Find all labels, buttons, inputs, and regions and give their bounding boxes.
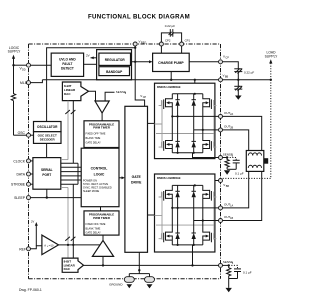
label net SENSE2	[116, 90, 127, 95]
wire VBB2 into bridge1	[195, 181, 219, 186]
svg-text:MLB: MLB	[20, 81, 28, 85]
svg-text:DAC: DAC	[64, 92, 71, 96]
wire SENSE1 net line	[84, 264, 219, 266]
wire CP2 to charge pump	[160, 46, 162, 53]
svg-text:CP: CP	[225, 57, 229, 60]
wire serial port bottom to sleep line	[46, 189, 48, 197]
label VCP at gate drive	[140, 94, 146, 99]
svg-text:FAULT: FAULT	[62, 62, 72, 66]
wire rail to bridge2 drain rail	[194, 80, 196, 94]
diode D top-left bridge2	[175, 94, 179, 117]
pin CLOCK	[13, 159, 30, 163]
svg-text:SYNC. RECT. DISABLED: SYNC. RECT. DISABLED	[83, 186, 112, 189]
ground arrow GND2	[147, 284, 153, 288]
box PROGRAMMABLE PWM TIMER 1	[84, 121, 119, 148]
svg-text:SUPPLY: SUPPLY	[265, 54, 279, 58]
svg-text:PWM TIMER: PWM TIMER	[93, 126, 111, 130]
bridge1 internals	[155, 184, 219, 265]
wire bridge2 sense	[193, 153, 219, 158]
pin SENSE2	[219, 152, 234, 159]
svg-text:SLEEP: SLEEP	[14, 196, 26, 200]
wire amp output	[59, 244, 101, 246]
pin GND2 oval	[145, 277, 155, 283]
wire control logic to gate drive arrow	[119, 176, 125, 179]
node VBB cap junction	[237, 79, 239, 81]
svg-text:DRIVE: DRIVE	[131, 181, 142, 185]
svg-text:SUPPLY: SUPPLY	[8, 50, 22, 54]
wire regulator output to charge pump	[132, 60, 153, 63]
svg-text:LOGIC: LOGIC	[94, 172, 105, 176]
wire VBB pin to load supply	[223, 79, 271, 81]
svg-text:0.22 µF: 0.22 µF	[244, 70, 254, 74]
wire OUT2A net	[172, 115, 218, 117]
transistor Q bottom-left bridge1	[159, 207, 174, 245]
diode D bottom-left bridge1	[175, 208, 179, 245]
gray gate bus bridge1	[155, 192, 215, 240]
bus serial port to DAC2 lines	[68, 163, 78, 258]
resistor sense2	[225, 158, 229, 170]
svg-text:=10: =10	[49, 243, 54, 247]
svg-text:SLEEP MODE: SLEEP MODE	[83, 190, 100, 193]
node load supply junction	[270, 79, 272, 81]
svg-text:CP1: CP1	[185, 39, 191, 43]
box regulator outer	[97, 50, 132, 80]
wire OUT2B to load	[223, 130, 249, 151]
wire CP1 to charge pump	[181, 46, 183, 53]
svg-text:CHARGE PUMP: CHARGE PUMP	[158, 61, 184, 65]
wire comp2 sense input	[102, 256, 104, 265]
svg-text:DETECT: DETECT	[61, 67, 74, 71]
wire UVLO to regulator block	[84, 63, 97, 65]
bridge2 internals	[155, 93, 219, 158]
svg-text:PWM TIMER: PWM TIMER	[93, 216, 111, 220]
svg-text:GROUND: GROUND	[109, 283, 123, 287]
DAC2 8-BIT LINEAR DAC	[62, 258, 83, 272]
wire drain rail bridge2	[172, 93, 203, 95]
pin OUT2B	[219, 125, 234, 132]
wire charge pump output to VCP pin	[189, 61, 218, 63]
pin OUT1A	[219, 203, 234, 210]
diode D bottom-right bridge2	[192, 130, 196, 153]
label 2V output arrow	[86, 54, 97, 60]
sense2 RC network	[223, 156, 244, 175]
diode D bottom-right bridge1	[192, 221, 196, 245]
wire OUT1B to load	[223, 171, 262, 220]
label LOGIC SUPPLY	[8, 46, 22, 54]
transistor Q bottom-right bridge2	[203, 130, 217, 153]
wire gate drive ground	[129, 252, 149, 276]
svg-text:UVLO AND: UVLO AND	[59, 58, 76, 62]
svg-text:1A: 1A	[230, 205, 233, 208]
box GATE DRIVE	[125, 106, 148, 252]
VBB rail	[42, 79, 218, 81]
box OSCILLATOR	[34, 122, 62, 132]
comparator COMP2	[92, 240, 113, 256]
node rail-bridge2 junction	[194, 79, 196, 81]
amp A1	[42, 235, 59, 255]
pin SENSE1	[219, 260, 234, 267]
svg-text:0.22 µF: 0.22 µF	[165, 24, 175, 28]
box SERIAL PORT	[33, 158, 61, 190]
svg-text:REG: REG	[141, 42, 146, 45]
svg-text:BB: BB	[225, 75, 229, 78]
svg-text:DAC: DAC	[64, 267, 71, 271]
node rail-chargepump junction	[170, 79, 172, 81]
svg-text:0.1 µF: 0.1 µF	[243, 271, 252, 275]
node regulator/VREG junction	[134, 61, 136, 63]
node SLEEP junction	[46, 196, 48, 198]
wire control logic to PWM2 stubs	[100, 207, 102, 211]
svg-text:POWER ON: POWER ON	[83, 179, 97, 182]
svg-text:DD: DD	[22, 69, 26, 72]
svg-text:CP: CP	[143, 96, 147, 99]
svg-text:DMOS H BRIDGE: DMOS H BRIDGE	[157, 85, 181, 89]
svg-text:GATE DELAY: GATE DELAY	[86, 231, 102, 234]
ground arrow VBB cap	[235, 96, 242, 100]
capacitor VBB bypass	[234, 80, 242, 96]
pin REF	[19, 247, 30, 252]
gray gate bus bridge2	[155, 101, 215, 149]
svg-text:REF: REF	[19, 247, 26, 251]
wire OSC to oscillator box	[31, 134, 34, 136]
svg-text:REGULATOR: REGULATOR	[105, 58, 126, 62]
wire REF to amp	[31, 246, 42, 249]
chip boundary (dash-dot outline)	[29, 44, 221, 279]
svg-text:2A: 2A	[230, 113, 233, 116]
svg-text:FUNCTIONAL BLOCK DIAGRAM: FUNCTIONAL BLOCK DIAGRAM	[88, 14, 190, 21]
box DMOS H BRIDGE 1	[155, 174, 215, 252]
svg-text:GATE: GATE	[132, 175, 142, 179]
svg-text:2V: 2V	[31, 220, 34, 224]
motor load	[246, 151, 268, 172]
pin DATA	[16, 172, 30, 176]
diode D top-right bridge2	[192, 94, 196, 130]
ground arrow sense1	[226, 288, 232, 292]
box BANDGAP	[99, 67, 130, 76]
svg-text:FIXED OFF-TIME: FIXED OFF-TIME	[86, 133, 106, 136]
bus ticks near DAC2	[65, 237, 75, 241]
wire logic supply arrow	[12, 55, 15, 66]
pin VBB2	[219, 179, 230, 189]
resistor R-osc	[11, 65, 15, 135]
wire to OSC pin	[14, 134, 29, 136]
wire PWM1 to control logic stubs	[100, 147, 102, 150]
box UVLO AND FAULT DETECT	[51, 53, 83, 76]
svg-text:BB: BB	[226, 185, 230, 188]
wire load supply dotted arrow	[269, 59, 272, 80]
wire source rail bridge2	[172, 152, 203, 154]
box PROGRAMMABLE PWM TIMER 2	[84, 211, 119, 235]
pin CP2	[159, 39, 170, 47]
box CONTROL LOGIC	[81, 148, 119, 207]
wire load supply dotted down to VBB2	[223, 80, 271, 179]
pin OUT1B	[219, 215, 234, 222]
wire OUT1A net	[172, 207, 218, 209]
wire gate drive to bridge2	[148, 122, 155, 124]
svg-text:2V: 2V	[86, 54, 90, 58]
wire SENSE2 net to comparator1	[105, 92, 114, 101]
box REGULATOR	[99, 53, 131, 65]
capacitor 0.22uF charge pump	[161, 24, 181, 42]
svg-text:CP2: CP2	[165, 39, 171, 43]
wire charge pump VBB feed	[170, 72, 172, 80]
pin CP1	[180, 39, 191, 47]
transistor Q top-right bridge2	[203, 94, 217, 130]
comparator COMP1	[95, 101, 109, 113]
wire OUT1B net	[194, 220, 219, 222]
diode D top-left bridge1	[175, 185, 179, 208]
wire DATA	[31, 173, 33, 175]
wire VDD to UVLO	[31, 64, 52, 66]
svg-text:BLANK TIME: BLANK TIME	[86, 227, 101, 230]
pin VREG	[133, 40, 146, 46]
box CHARGE PUMP	[153, 53, 190, 71]
bus DAC1 to serial port lines	[65, 101, 75, 164]
DAC1 8-BIT LINEAR DAC	[62, 82, 88, 101]
pin VBB	[219, 73, 229, 82]
wire bridge1 sense down	[192, 245, 194, 266]
wire DAC1 to comparator1	[89, 91, 96, 101]
sense1 RC network	[223, 264, 252, 292]
pin SLEEP	[14, 196, 30, 200]
diode D bottom-left bridge2	[175, 116, 179, 152]
node top bus junction	[134, 47, 136, 49]
svg-text:FIXED OFF-TIME: FIXED OFF-TIME	[86, 223, 106, 226]
wire OUT2B net	[194, 129, 219, 131]
box OSC SELECT DECODER	[34, 132, 62, 144]
svg-text:OSC: OSC	[18, 131, 26, 135]
wire 2V bus from top to oscillator	[47, 48, 136, 122]
wire to VDD pin	[14, 64, 29, 66]
svg-text:STROBE: STROBE	[11, 183, 26, 187]
wire oscillator to serial port	[46, 143, 48, 157]
pin VCP	[219, 55, 230, 64]
wire gate drive to bridge1	[148, 214, 155, 216]
svg-text:2B: 2B	[230, 127, 233, 130]
ground arrow sense2	[224, 170, 230, 174]
transistor Q top-left bridge2	[159, 94, 173, 117]
svg-text:GATE DELAY: GATE DELAY	[86, 142, 102, 145]
box DMOS H BRIDGE 2	[155, 83, 215, 158]
transistor Q bottom-left bridge2	[159, 115, 174, 153]
wire drain rail bridge1	[172, 184, 203, 186]
capacitor 0.1uF sense2	[233, 159, 240, 161]
svg-text:0.1 µF: 0.1 µF	[235, 171, 244, 175]
svg-text:CONTROL: CONTROL	[91, 167, 108, 171]
wire OUT2A to load	[223, 116, 262, 150]
pin OUT2A	[219, 111, 234, 118]
svg-text:1B: 1B	[230, 217, 233, 220]
ground arrow GND1	[127, 284, 133, 288]
svg-text:DATA: DATA	[16, 172, 25, 176]
wire source rail bridge1	[172, 244, 203, 246]
pin MLB	[20, 81, 30, 85]
transistor Q top-right bridge1	[203, 185, 217, 220]
svg-text:DMOS H BRIDGE: DMOS H BRIDGE	[157, 176, 181, 180]
svg-text:OSCILLATOR: OSCILLATOR	[37, 125, 58, 129]
wire CLOCK	[31, 160, 33, 162]
diode D top-right bridge1	[192, 185, 196, 220]
svg-text:PORT: PORT	[42, 173, 51, 177]
wire SLEEP to control logic	[31, 197, 82, 199]
transistor Q bottom-right bridge1	[203, 221, 217, 245]
wire STROBE	[31, 183, 33, 185]
wire comparator1 to PWM timer 1	[101, 113, 103, 121]
svg-text:Dwg. FP-060-1: Dwg. FP-060-1	[19, 288, 42, 292]
svg-text:CLOCK: CLOCK	[13, 159, 25, 163]
label LOAD SUPPLY	[265, 51, 279, 59]
wire OUT1A to load	[223, 171, 249, 208]
capacitor 0.1uF sense1	[234, 268, 241, 270]
resistor sense1	[227, 265, 231, 278]
svg-text:BANDGAP: BANDGAP	[106, 70, 123, 74]
pin GND1 oval	[109, 277, 134, 287]
node logic supply junction	[12, 64, 14, 66]
svg-text:A: A	[44, 243, 46, 247]
transistor Q top-left bridge1	[159, 185, 173, 208]
wire serial port buses	[61, 160, 81, 188]
wire comp2 output to PWM2	[102, 235, 104, 240]
pin STROBE	[11, 182, 30, 186]
capacitor 0.22uF VCP reservoir	[223, 62, 255, 80]
label 2V reference arrow	[31, 220, 38, 246]
svg-text:DECODER: DECODER	[40, 138, 56, 142]
svg-text:SERIAL: SERIAL	[41, 168, 53, 172]
wire MLB to VBB rail	[31, 80, 43, 83]
pin OSC	[18, 131, 31, 137]
svg-text:BLANK TIME: BLANK TIME	[86, 137, 101, 140]
pin VDD	[20, 63, 31, 72]
wire VREG pin down through bus to gate drive VCP corner	[135, 46, 144, 106]
